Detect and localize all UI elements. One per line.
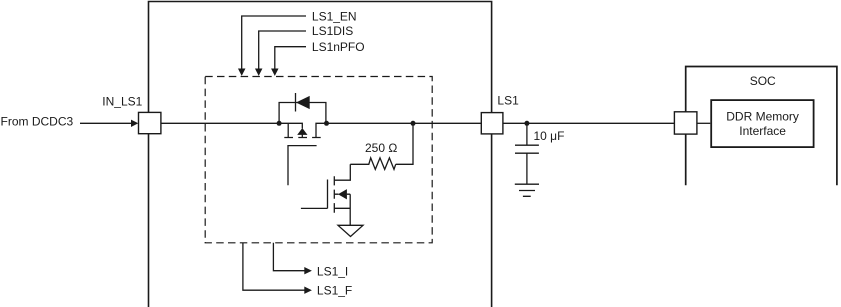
internal switch dashed box [205, 77, 432, 243]
ground symbol for C1 [515, 184, 539, 196]
svg-text:LS1DIS: LS1DIS [312, 24, 353, 38]
wire IN_LS1 to LS1 [161, 123, 302, 128]
transistor Q2 body arrow head [338, 189, 347, 199]
pass FET Q1 channel stubs [287, 123, 289, 137]
control signal LS1_EN wire [242, 16, 306, 70]
transistor Q2 channel segments [333, 176, 335, 213]
svg-text:IN_LS1: IN_LS1 [102, 94, 142, 108]
transistor Q2 source lead [334, 207, 350, 209]
svg-text:LS1: LS1 [497, 94, 519, 108]
svg-text:LS1_F: LS1_F [317, 284, 352, 298]
control signal LS1nPFO wire [275, 47, 306, 70]
ground triangle [338, 225, 363, 236]
svg-text:Interface: Interface [739, 124, 786, 138]
svg-text:LS1_EN: LS1_EN [312, 9, 357, 23]
arrowhead LS1_I [304, 267, 312, 274]
pass FET Q1 channel segments [284, 137, 320, 139]
node dot at R1 branch [411, 121, 416, 126]
pin LS1 [481, 113, 503, 134]
pass FET Q1 diode cathode bar [295, 93, 297, 112]
svg-text:250 Ω: 250 Ω [365, 141, 397, 155]
pass FET Q1 gate [288, 146, 317, 186]
wire SOC pin to DDR box [697, 122, 710, 124]
node dot at Q1 left [277, 121, 282, 126]
svg-text:LS1nPFO: LS1nPFO [312, 40, 365, 54]
arrowhead From DCDC3 [131, 120, 138, 127]
status output LS1_I wire [273, 243, 304, 271]
svg-text:DDR Memory: DDR Memory [726, 109, 799, 123]
capacitor C1 top lead [526, 123, 528, 145]
capacitor C1 plates [515, 145, 539, 153]
resistor R1 branch wire from node [396, 123, 413, 164]
transistor Q2 body lead [334, 193, 350, 195]
pin IN_LS1 [139, 112, 161, 133]
node dot at Q1 right [324, 121, 329, 126]
resistor R1 zigzag 250 ohm [350, 158, 395, 170]
arrowhead LS1nPFO [271, 69, 279, 76]
pass FET Q1 body arrow head [297, 128, 307, 135]
svg-text:LS1_I: LS1_I [317, 264, 348, 278]
arrowhead LS1DIS [255, 69, 263, 76]
wire R1 to Q2 drain [334, 164, 350, 180]
wire Q2 to ground [349, 194, 351, 225]
arrowhead LS1_F [304, 287, 312, 294]
transistor Q2 gate bar [327, 180, 329, 209]
load switch IC box U1 [149, 2, 492, 307]
wire From DCDC3 to IN_LS1 [80, 122, 131, 124]
DDR Memory Interface box [711, 100, 813, 147]
wire Q1 right terminal to LS1 [316, 123, 481, 137]
svg-text:From DCDC3: From DCDC3 [1, 114, 74, 128]
status output LS1_F wire [243, 243, 305, 290]
control signal LS1DIS wire [259, 31, 306, 70]
pass FET Q1 body diode loop wire [279, 103, 326, 124]
SOC pin [674, 112, 697, 134]
svg-text:10 μF: 10 μF [534, 129, 565, 143]
svg-text:SOC: SOC [750, 74, 776, 88]
pass FET Q1 body diode triangle [296, 96, 310, 109]
pass FET Q1 body arrow stem [301, 135, 303, 138]
SOC box [686, 67, 837, 186]
capacitor C1 bottom lead [526, 153, 528, 184]
node dot at C1 branch [524, 121, 529, 126]
wire LS1 to SOC pin [503, 122, 675, 124]
transistor Q2 gate lead [301, 207, 328, 209]
arrowhead LS1_EN [238, 69, 246, 76]
